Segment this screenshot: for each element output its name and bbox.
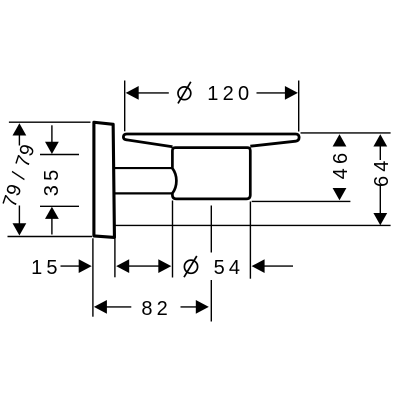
svg-text:64: 64 bbox=[371, 156, 393, 187]
dim 79/79: top extension line bbox=[9, 121, 91, 123]
dim 46: up arrow bbox=[333, 134, 347, 146]
dim 82: right extension lower segment bbox=[210, 280, 212, 322]
dim 82: right extension upper segment (cup axis) bbox=[210, 206, 212, 253]
dim O54: left extension line bbox=[172, 201, 174, 278]
dim O54: right arrow pointing left bbox=[252, 259, 265, 273]
wall extension line (left of 15 and 82) bbox=[92, 238, 94, 316]
dish plate (top, side view) bbox=[123, 134, 299, 147]
dim 35: lower tail bbox=[51, 218, 53, 235]
shared tail between dim 15 and dim O54 bbox=[128, 265, 159, 267]
dim 35: up arrow below bottom line bbox=[45, 207, 59, 219]
arm top line bbox=[114, 167, 173, 169]
dim 15: right arrow pointing left bbox=[116, 259, 129, 273]
arm bottom line bbox=[114, 192, 173, 194]
dim 35: upper tail bbox=[51, 125, 53, 143]
dim O54: diameter symbol bbox=[184, 256, 198, 277]
dim 15: right extension line bbox=[114, 238, 116, 277]
dim 79/79: bottom extension line bbox=[8, 236, 93, 238]
dim 82: left tail bbox=[106, 306, 131, 308]
svg-text:54: 54 bbox=[214, 257, 245, 279]
svg-text:35: 35 bbox=[41, 166, 63, 197]
dim 82: right tail bbox=[181, 306, 198, 308]
dim 79/79: down arrow bbox=[13, 223, 27, 235]
dim O120: diameter symbol bbox=[178, 82, 191, 104]
dim 15: left tail bbox=[61, 265, 80, 267]
dim 35: bottom extension line bbox=[40, 205, 79, 207]
dim 64: down arrow bbox=[373, 213, 387, 225]
dim 46: bottom extension line bbox=[252, 200, 351, 202]
dim 64: up arrow bbox=[373, 134, 387, 146]
dim O120: right tail bbox=[257, 92, 287, 94]
dim O54: left arrow pointing right bbox=[158, 259, 171, 273]
dim 35: down arrow above top line bbox=[45, 142, 59, 154]
cup holder (rounded box) bbox=[172, 148, 250, 199]
dim 79/79: lower line bbox=[18, 206, 20, 225]
dim 15: left arrow pointing right bbox=[79, 259, 92, 273]
dim O120: right arrow bbox=[285, 86, 298, 100]
dim O120: left tail bbox=[138, 92, 169, 94]
dim 64: lower tail bbox=[379, 186, 381, 214]
dim 46: down arrow bbox=[333, 188, 347, 200]
dim 79/79: up arrow bbox=[13, 123, 27, 135]
dim O54: right extension line bbox=[249, 202, 251, 279]
dim O120: left arrow bbox=[126, 86, 139, 100]
svg-text:15: 15 bbox=[31, 257, 62, 279]
dim 46: top extension line bbox=[301, 132, 391, 134]
dim 64: upper tail bbox=[379, 146, 381, 160]
wall plate (side view) bbox=[94, 122, 115, 237]
dim O54: right tail bbox=[264, 265, 293, 267]
dim 82: left arrow pointing left bbox=[94, 300, 107, 314]
dim 64: bottom extension line bbox=[115, 224, 391, 226]
dim 82: right arrow pointing right bbox=[196, 300, 209, 314]
svg-text:120: 120 bbox=[207, 83, 253, 105]
dim O120: left extension line bbox=[124, 81, 126, 132]
dim O120: right extension line bbox=[298, 81, 300, 132]
dim 35: top extension line bbox=[40, 154, 79, 156]
svg-text:82: 82 bbox=[141, 298, 172, 320]
svg-text:46: 46 bbox=[330, 149, 352, 180]
dim 79/79: upper line bbox=[18, 134, 20, 146]
